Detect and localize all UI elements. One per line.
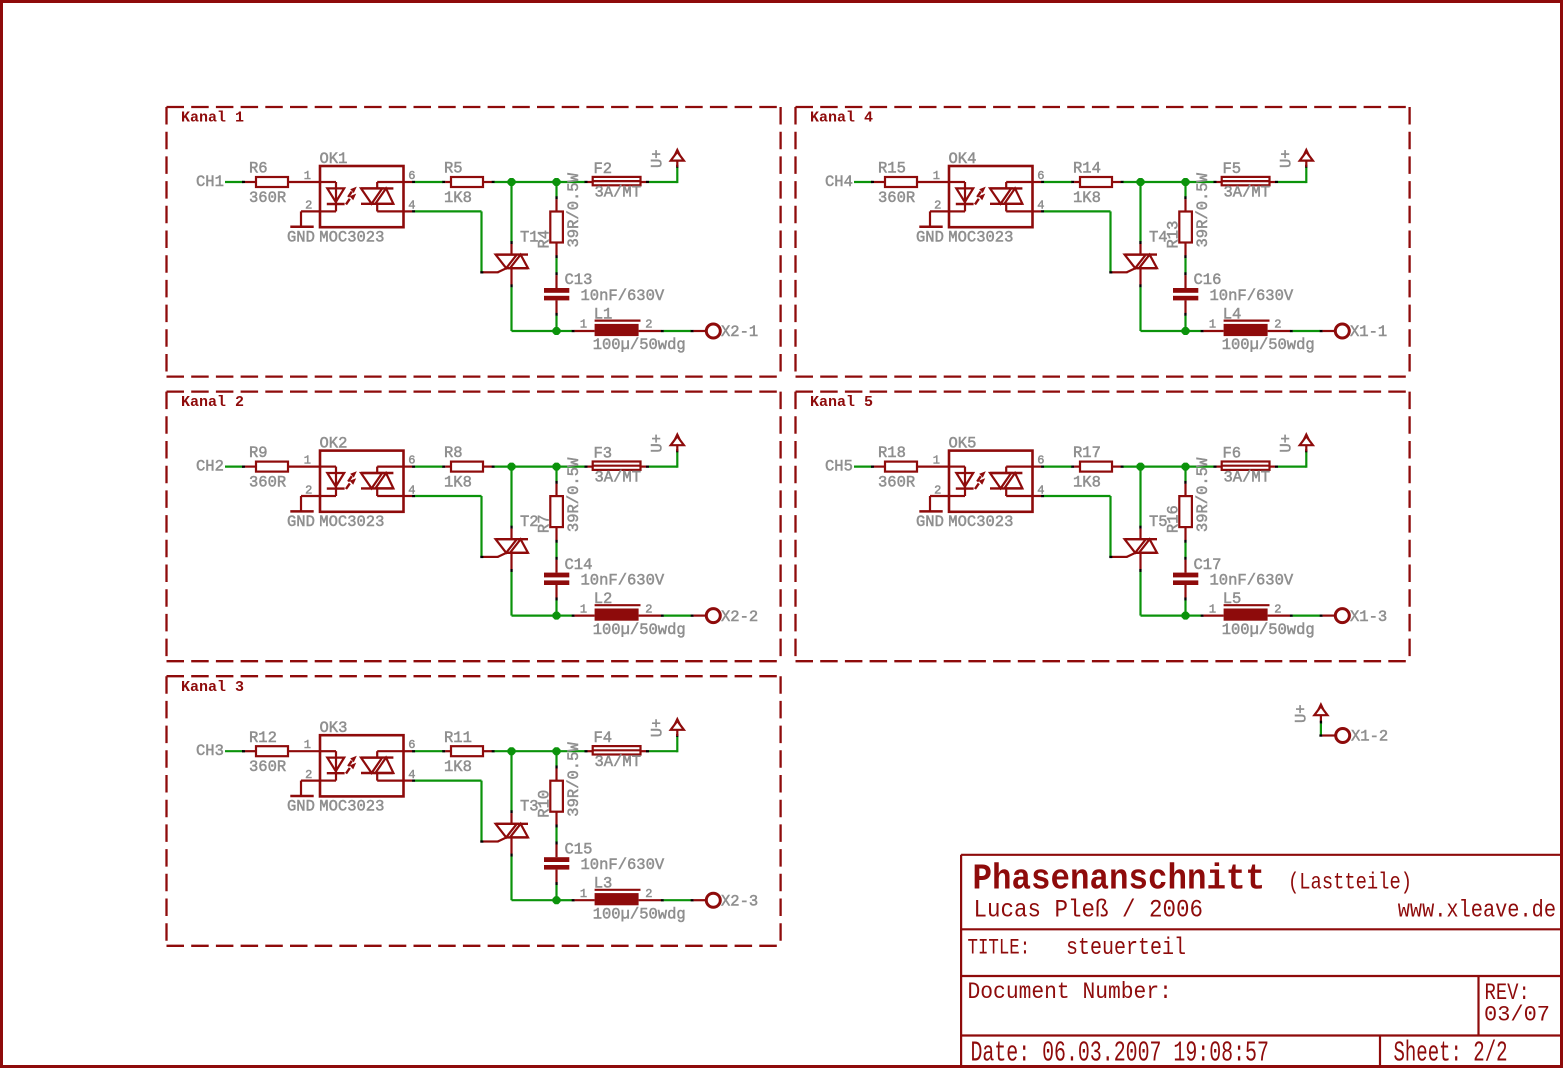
svg-text:L3: L3	[594, 875, 613, 893]
wire R17 to node A	[1112, 466, 1141, 468]
svg-text:X2-3: X2-3	[721, 892, 758, 910]
svg-text:100µ/50wdg: 100µ/50wdg	[1222, 336, 1315, 354]
wire node A to triac T1	[510, 182, 512, 255]
junction node A	[508, 178, 516, 186]
wire C16 to bottom rail	[1184, 300, 1186, 331]
svg-text:U+: U+	[1293, 704, 1311, 723]
triac T3	[483, 798, 539, 842]
svg-text:Sheet: 2/2: Sheet: 2/2	[1394, 1038, 1508, 1068]
svg-text:1K8: 1K8	[444, 189, 472, 207]
supply symbol U+	[649, 432, 684, 453]
triac inside OK3	[361, 751, 404, 780]
LED inside OK1	[320, 182, 345, 211]
wire L3 to connector X2-3	[639, 899, 707, 901]
resistor R9	[249, 444, 288, 491]
resistor R15	[878, 160, 917, 207]
ground symbol GND at OK1 pin2	[287, 211, 320, 246]
svg-text:1K8: 1K8	[444, 473, 472, 491]
wire R13 to capacitor C16	[1184, 243, 1186, 289]
triac T4	[1112, 228, 1168, 272]
svg-text:R17: R17	[1073, 444, 1101, 462]
junction bottom rail	[553, 612, 561, 620]
wire CH3 to R12	[225, 750, 256, 752]
svg-text:03/07: 03/07	[1484, 1003, 1550, 1028]
supply symbol U+	[1278, 432, 1313, 453]
wire node B to resistor R16	[1184, 467, 1186, 497]
svg-text:CH2: CH2	[196, 457, 224, 475]
capacitor C15	[544, 840, 665, 874]
svg-text:F4: F4	[594, 729, 613, 747]
ground symbol GND at OK3 pin2	[287, 781, 320, 816]
svg-text:1: 1	[580, 887, 587, 901]
light arrows inside OK1	[346, 187, 357, 205]
connector pin X1-1	[1335, 323, 1387, 341]
wire junction to inductor L4	[1186, 330, 1224, 332]
svg-text:X1-1: X1-1	[1350, 323, 1387, 341]
svg-text:1K8: 1K8	[1073, 189, 1101, 207]
junction node B	[553, 463, 561, 471]
LED inside OK4	[949, 182, 974, 211]
svg-text:1: 1	[580, 318, 587, 332]
wire OK5 pin6 to R17	[1033, 466, 1081, 468]
svg-text:39R/0.5W: 39R/0.5W	[1194, 457, 1212, 532]
svg-text:R18: R18	[878, 444, 906, 462]
wire node A to triac T5	[1139, 467, 1141, 540]
wire node B to fuse F2	[557, 181, 593, 183]
svg-text:F5: F5	[1223, 160, 1242, 178]
svg-text:OK2: OK2	[320, 435, 348, 453]
svg-text:GND: GND	[287, 228, 315, 246]
frame Kanal box Kanal 4	[796, 107, 1410, 377]
junction node B	[1182, 178, 1190, 186]
optocoupler OK4 MOC3023	[796, 147, 1561, 1068]
svg-text:1: 1	[933, 454, 940, 468]
connector pin X2-1	[706, 323, 758, 341]
svg-text:100µ/50wdg: 100µ/50wdg	[593, 336, 686, 354]
junction bottom rail	[553, 896, 561, 904]
svg-text:CH1: CH1	[196, 173, 224, 191]
junction node A	[508, 463, 516, 471]
svg-text:R11: R11	[444, 729, 472, 747]
wire R14 to node A	[1112, 181, 1141, 183]
connector pin X2-3	[706, 892, 758, 910]
title block frame	[961, 855, 1560, 1065]
svg-text:2: 2	[645, 318, 652, 332]
resistor R8	[444, 444, 483, 491]
svg-text:Document Number:: Document Number:	[968, 978, 1172, 1005]
inductor L3	[580, 875, 686, 924]
fuse F4	[593, 729, 641, 771]
svg-text:Kanal 5: Kanal 5	[810, 394, 873, 411]
wire node A to node B	[512, 750, 557, 752]
supply symbol U+ for X1-2	[1293, 702, 1328, 723]
wire OK4 pin4 to T4 gate	[1033, 210, 1113, 273]
wire C14 to bottom rail	[555, 585, 557, 616]
triac inside OK2	[361, 467, 404, 496]
svg-text:CH4: CH4	[825, 173, 853, 191]
svg-text:L1: L1	[594, 305, 613, 323]
supply symbol U+	[1278, 147, 1313, 168]
svg-text:39R/0.5W: 39R/0.5W	[565, 742, 583, 817]
wire OK3 pin4 to T3 gate	[404, 780, 484, 843]
junction bottom rail	[1182, 612, 1190, 620]
LED inside OK5	[949, 467, 974, 496]
wire F5 to U+ supply	[1270, 165, 1308, 183]
wire node B to resistor R10	[555, 751, 557, 781]
wire OK1 pin6 to R5	[404, 181, 452, 183]
wire node A to node B	[1141, 466, 1186, 468]
wire OK3 pin6 to R11	[404, 750, 452, 752]
wire node B to resistor R13	[1184, 182, 1186, 212]
svg-text:steuerteil: steuerteil	[1066, 934, 1186, 961]
svg-text:R12: R12	[249, 729, 277, 747]
svg-text:10nF/630V: 10nF/630V	[581, 571, 665, 589]
wire L2 to connector X2-2	[639, 615, 707, 617]
svg-text:1: 1	[1209, 318, 1216, 332]
svg-text:1: 1	[304, 738, 311, 752]
wire node B to resistor R7	[555, 467, 557, 497]
svg-text:TITLE:: TITLE:	[968, 936, 1031, 962]
light arrows inside OK2	[346, 471, 357, 489]
svg-text:3A/MT: 3A/MT	[1224, 184, 1271, 202]
svg-text:1: 1	[933, 169, 940, 183]
wire node B to resistor R4	[555, 182, 557, 212]
resistor R4 snubber	[536, 172, 583, 248]
svg-text:2: 2	[645, 602, 652, 616]
svg-text:MOC3023: MOC3023	[319, 228, 384, 246]
wire R9 to OK2 pin1	[288, 466, 320, 468]
resistor R6	[249, 160, 288, 207]
svg-text:3A/MT: 3A/MT	[1224, 468, 1271, 486]
wire CH1 to R6	[225, 181, 256, 183]
svg-text:X1-3: X1-3	[1350, 608, 1387, 626]
wire C13 to bottom rail	[555, 300, 557, 331]
svg-text:3A/MT: 3A/MT	[595, 468, 642, 486]
resistor R18	[878, 444, 917, 491]
svg-text:MOC3023: MOC3023	[319, 513, 384, 531]
triac inside OK1	[361, 182, 404, 211]
wire OK5 pin4 to T5 gate	[1033, 495, 1113, 558]
wire T1 to bottom rail	[510, 268, 556, 331]
svg-text:L4: L4	[1223, 305, 1242, 323]
svg-text:39R/0.5W: 39R/0.5W	[565, 457, 583, 532]
capacitor C13	[544, 271, 665, 305]
wire node B to fuse F4	[557, 750, 593, 752]
svg-text:Kanal 3: Kanal 3	[181, 679, 244, 696]
resistor R5	[444, 160, 483, 207]
svg-text:R5: R5	[444, 160, 463, 178]
wire R11 to node A	[483, 750, 512, 752]
svg-text:1: 1	[580, 602, 587, 616]
wire junction to inductor L1	[557, 330, 595, 332]
wire R7 to capacitor C14	[555, 527, 557, 573]
resistor R14	[1073, 160, 1112, 207]
svg-text:Phasenanschnitt: Phasenanschnitt	[973, 859, 1266, 900]
svg-text:OK4: OK4	[949, 150, 977, 168]
svg-text:(Lastteile): (Lastteile)	[1288, 870, 1412, 896]
svg-text:X1-2: X1-2	[1351, 728, 1388, 746]
fuse F2	[593, 160, 641, 202]
svg-text:GND: GND	[287, 798, 315, 816]
svg-text:R15: R15	[878, 160, 906, 178]
wire CH5 to R18	[854, 466, 885, 468]
light arrows inside OK4	[975, 187, 986, 205]
fuse F3	[593, 444, 641, 486]
svg-text:360R: 360R	[249, 189, 286, 207]
svg-text:2: 2	[1274, 602, 1281, 616]
svg-text:100µ/50wdg: 100µ/50wdg	[593, 905, 686, 923]
svg-text:Kanal 4: Kanal 4	[810, 110, 873, 127]
svg-text:X2-1: X2-1	[721, 323, 758, 341]
wire node A to triac T2	[510, 467, 512, 540]
capacitor C16	[1173, 271, 1294, 305]
wire R6 to OK1 pin1	[288, 181, 320, 183]
light arrows inside OK5	[975, 471, 986, 489]
svg-text:2: 2	[1274, 318, 1281, 332]
frame Kanal box Kanal 3	[167, 676, 781, 946]
wire L4 to connector X1-1	[1268, 330, 1336, 332]
ground symbol GND at OK5 pin2	[916, 496, 949, 531]
svg-text:R6: R6	[249, 160, 268, 178]
optocoupler OK3 MOC3023	[287, 107, 1560, 1068]
light arrows inside OK3	[346, 756, 357, 774]
wire R5 to node A	[483, 181, 512, 183]
svg-text:F3: F3	[594, 444, 613, 462]
svg-text:Kanal 1: Kanal 1	[181, 110, 244, 127]
inductor L5	[1209, 590, 1315, 639]
svg-text:U+: U+	[1278, 434, 1296, 453]
capacitor C17	[1173, 556, 1294, 590]
svg-text:X2-2: X2-2	[721, 608, 758, 626]
svg-text:MOC3023: MOC3023	[948, 513, 1013, 531]
svg-text:1K8: 1K8	[1073, 473, 1101, 491]
svg-text:L2: L2	[594, 590, 613, 608]
wire node B to fuse F5	[1186, 181, 1222, 183]
LED inside OK2	[320, 467, 345, 496]
svg-text:R9: R9	[249, 444, 268, 462]
svg-text:39R/0.5W: 39R/0.5W	[565, 172, 583, 247]
svg-text:CH3: CH3	[196, 742, 224, 760]
triac T2	[483, 513, 539, 557]
wire F3 to U+ supply	[641, 449, 679, 468]
wire T5 to bottom rail	[1139, 553, 1185, 616]
svg-text:U+: U+	[649, 434, 667, 453]
svg-text:1: 1	[304, 169, 311, 183]
connector pin X2-2	[706, 608, 758, 626]
svg-text:U+: U+	[649, 149, 667, 168]
wire L5 to connector X1-3	[1268, 615, 1336, 617]
wire R10 to capacitor C15	[555, 812, 557, 858]
wire R18 to OK5 pin1	[917, 466, 949, 468]
junction node B	[1182, 463, 1190, 471]
resistor R10 snubber	[536, 742, 583, 818]
svg-text:L5: L5	[1223, 590, 1242, 608]
wire node A to node B	[1141, 181, 1186, 183]
svg-text:Date: 06.03.2007 19:08:57: Date: 06.03.2007 19:08:57	[971, 1037, 1269, 1068]
svg-text:2: 2	[645, 887, 652, 901]
svg-text:360R: 360R	[249, 473, 286, 491]
capacitor C14	[544, 556, 665, 590]
ground symbol GND at OK2 pin2	[287, 496, 320, 531]
svg-text:10nF/630V: 10nF/630V	[1210, 287, 1294, 305]
svg-text:100µ/50wdg: 100µ/50wdg	[593, 621, 686, 639]
svg-text:www.xleave.de: www.xleave.de	[1398, 896, 1556, 924]
junction node B	[553, 178, 561, 186]
wire L1 to connector X2-1	[639, 330, 707, 332]
wire OK1 pin4 to T1 gate	[404, 210, 484, 273]
svg-text:10nF/630V: 10nF/630V	[1210, 571, 1294, 589]
triac T1	[483, 228, 539, 272]
wire F2 to U+ supply	[641, 165, 679, 183]
svg-text:CH5: CH5	[825, 457, 853, 475]
wire OK4 pin6 to R14	[1033, 181, 1081, 183]
svg-text:360R: 360R	[249, 758, 286, 776]
connector pin X1-3	[1335, 608, 1387, 626]
connector pin X1-2	[1336, 728, 1389, 746]
wire R15 to OK4 pin1	[917, 181, 949, 183]
svg-text:MOC3023: MOC3023	[319, 798, 384, 816]
svg-text:R16: R16	[1165, 505, 1183, 533]
svg-text:3A/MT: 3A/MT	[595, 753, 642, 771]
resistor R12	[249, 729, 288, 776]
wire node A to node B	[512, 466, 557, 468]
svg-text:OK3: OK3	[320, 719, 348, 737]
wire CH4 to R15	[854, 181, 885, 183]
junction bottom rail	[1182, 327, 1190, 335]
junction bottom rail	[553, 327, 561, 335]
inductor L2	[580, 590, 686, 639]
frame Kanal box Kanal 5	[796, 392, 1410, 662]
svg-text:R14: R14	[1073, 160, 1101, 178]
wire T4 to bottom rail	[1139, 268, 1185, 331]
svg-text:OK1: OK1	[320, 150, 348, 168]
wire T3 to bottom rail	[510, 837, 556, 900]
svg-text:F6: F6	[1223, 444, 1242, 462]
wire OK2 pin4 to T2 gate	[404, 495, 484, 558]
svg-text:3A/MT: 3A/MT	[595, 184, 642, 202]
svg-text:U+: U+	[649, 719, 667, 738]
wire T2 to bottom rail	[510, 553, 556, 616]
triac inside OK4	[990, 182, 1033, 211]
svg-text:1K8: 1K8	[444, 758, 472, 776]
wire CH2 to R9	[225, 466, 256, 468]
svg-text:F2: F2	[594, 160, 613, 178]
svg-text:360R: 360R	[878, 189, 915, 207]
svg-text:R4: R4	[536, 230, 554, 249]
svg-text:Lucas Pleß / 2006: Lucas Pleß / 2006	[974, 896, 1203, 925]
wire F6 to U+ supply	[1270, 449, 1308, 468]
svg-text:R10: R10	[536, 790, 554, 818]
wire F4 to U+ supply	[641, 734, 679, 752]
svg-text:OK5: OK5	[949, 435, 977, 453]
svg-text:1: 1	[1209, 602, 1216, 616]
wire node A to node B	[512, 181, 557, 183]
svg-text:10nF/630V: 10nF/630V	[581, 856, 665, 874]
inductor L1	[580, 305, 686, 354]
svg-text:MOC3023: MOC3023	[948, 228, 1013, 246]
LED inside OK3	[320, 751, 345, 780]
svg-text:U+: U+	[1278, 149, 1296, 168]
wire C17 to bottom rail	[1184, 585, 1186, 616]
fuse F5	[1222, 160, 1270, 202]
supply symbol U+	[649, 147, 684, 168]
fuse F6	[1222, 444, 1270, 486]
wire node A to triac T3	[510, 751, 512, 824]
wire R16 to capacitor C17	[1184, 527, 1186, 573]
inductor L4	[1209, 305, 1315, 354]
resistor R16 snubber	[1165, 457, 1212, 533]
junction node A	[1137, 463, 1145, 471]
optocoupler OK5 MOC3023	[916, 432, 1560, 1068]
triac T5	[1112, 513, 1168, 557]
svg-text:360R: 360R	[878, 473, 915, 491]
junction node B	[553, 747, 561, 755]
wire junction to inductor L3	[557, 899, 595, 901]
svg-text:GND: GND	[287, 513, 315, 531]
wire junction to inductor L2	[557, 615, 595, 617]
svg-text:R7: R7	[536, 514, 554, 533]
wire R12 to OK3 pin1	[288, 750, 320, 752]
resistor R13 snubber	[1165, 172, 1212, 248]
resistor R17	[1073, 444, 1112, 491]
wire node A to triac T4	[1139, 182, 1141, 255]
wire R8 to node A	[483, 466, 512, 468]
svg-text:GND: GND	[916, 228, 944, 246]
svg-text:100µ/50wdg: 100µ/50wdg	[1222, 621, 1315, 639]
frame Kanal box Kanal 2	[167, 392, 781, 662]
svg-text:10nF/630V: 10nF/630V	[581, 287, 665, 305]
svg-text:R13: R13	[1165, 221, 1183, 249]
svg-text:1: 1	[304, 454, 311, 468]
wire node B to fuse F6	[1186, 466, 1222, 468]
svg-text:GND: GND	[916, 513, 944, 531]
frame Kanal box Kanal 1	[167, 107, 781, 377]
supply symbol U+	[649, 717, 684, 738]
wire U+ to connector X1-2	[1319, 721, 1336, 737]
junction node A	[508, 747, 516, 755]
ground symbol GND at OK4 pin2	[916, 211, 949, 246]
resistor R11	[444, 729, 483, 776]
svg-text:R8: R8	[444, 444, 463, 462]
svg-text:39R/0.5W: 39R/0.5W	[1194, 172, 1212, 247]
wire R4 to capacitor C13	[555, 243, 557, 289]
wire OK2 pin6 to R8	[404, 466, 452, 468]
junction node A	[1137, 178, 1145, 186]
wire node B to fuse F3	[557, 466, 593, 468]
svg-text:Kanal 2: Kanal 2	[181, 394, 244, 411]
wire C15 to bottom rail	[555, 870, 557, 901]
triac inside OK5	[990, 467, 1033, 496]
resistor R7 snubber	[536, 457, 583, 533]
wire junction to inductor L5	[1186, 615, 1224, 617]
